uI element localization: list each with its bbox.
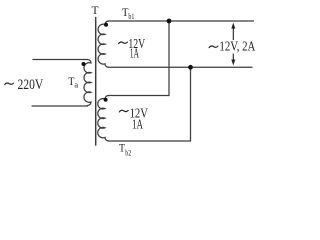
transformer core T	[95, 18, 97, 146]
label Tb1 ~12V tilde	[119, 42, 128, 44]
junction node second output	[188, 65, 193, 70]
svg-text:a: a	[74, 79, 78, 89]
wire Tb2 bottom to second output vertical	[190, 67, 192, 141]
dimension arrow ~12V,2A	[231, 23, 235, 66]
svg-text:T: T	[92, 5, 99, 17]
svg-text:12V, 2A: 12V, 2A	[219, 39, 256, 54]
label ~220V tilde	[5, 83, 14, 85]
wire primary top lead	[33, 59, 88, 61]
polarity dot Tb2	[104, 98, 108, 102]
svg-text:1A: 1A	[130, 47, 140, 62]
svg-text:b2: b2	[125, 147, 131, 157]
svg-text:1A: 1A	[132, 118, 144, 133]
wire Tb2 top lead	[109, 95, 170, 97]
winding Tb1 secondary	[98, 21, 108, 67]
svg-text:220V: 220V	[18, 77, 44, 93]
polarity dot Tb1	[104, 23, 108, 27]
svg-text:T: T	[119, 143, 125, 155]
wire primary bottom lead	[32, 105, 88, 107]
label Tb2 ~12V tilde	[119, 110, 128, 112]
svg-text:b1: b1	[128, 11, 134, 21]
winding Tb2 secondary	[98, 96, 109, 141]
junction node top output	[167, 19, 172, 24]
wire Tb2 top to top output vertical	[168, 21, 170, 96]
wire Tb1 top (to top output)	[109, 20, 254, 22]
polarity dot Ta	[82, 62, 86, 66]
wire Tb2 bottom lead	[109, 140, 191, 142]
label output tilde	[209, 46, 218, 48]
winding Ta primary coil	[84, 60, 91, 106]
wire Tb1 bottom (to second output)	[109, 66, 253, 68]
